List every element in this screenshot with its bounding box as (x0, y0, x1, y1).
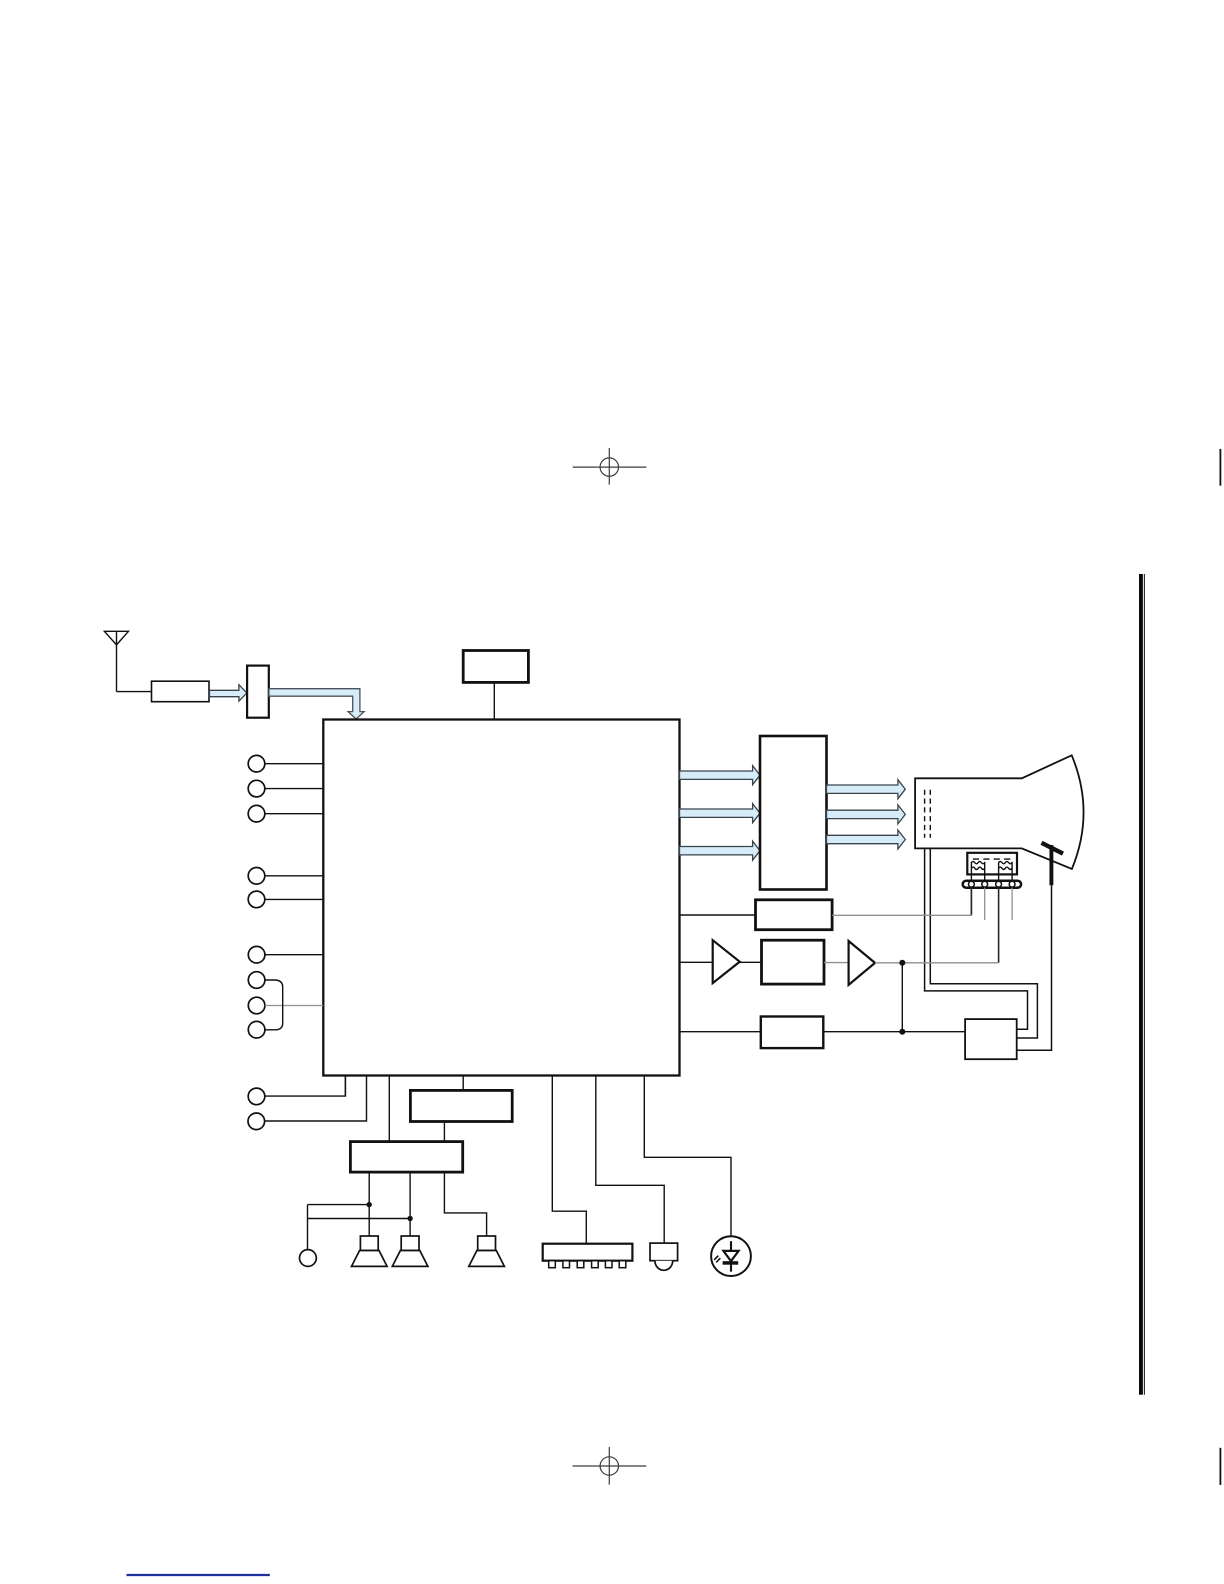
blue signal path filter to IC (bent arrow down) (269, 689, 364, 719)
wire gun lead 2 to FBT (930, 848, 1037, 1038)
wire socket pin2 stub (grey) (984, 888, 986, 920)
wire Q2 to yoke pin3 (grey) (875, 962, 999, 964)
junction node B (899, 1029, 905, 1035)
blue arrow IC to RGB driver (B) (680, 841, 761, 860)
wire socket pin3 down to amp line (998, 888, 1000, 963)
wire P10 to IC bottom (265, 1076, 346, 1097)
CN1 pin 3 (577, 1261, 584, 1268)
yoke dashed link (973, 858, 1012, 860)
wire P6 to IC (265, 954, 323, 956)
flyback transformer T1 (965, 1019, 1017, 1059)
wire IC bottom to box F (388, 1076, 390, 1142)
socket pin 4 (1009, 881, 1015, 887)
blue arrow IC to RGB driver (R) (680, 766, 761, 785)
CN1 pin 4 (592, 1261, 599, 1268)
socket pin 2 (982, 881, 988, 887)
wire socket pin4 stub (grey) (1011, 888, 1013, 920)
terminal P4 (248, 868, 265, 885)
blue arrow driver to CRT (G) (827, 805, 906, 824)
wire anode to FBT (1017, 885, 1052, 1050)
electron gun dashed line 2 (929, 790, 931, 838)
junction on SP1 line (367, 1202, 372, 1207)
registration mark bottom (573, 1447, 647, 1485)
junction on SP2 line (407, 1216, 412, 1221)
wire P8 to IC (grey) (265, 1005, 323, 1007)
box U4 (horizontal drive) (762, 940, 825, 984)
blue arrow driver to CRT (B) (827, 830, 906, 849)
terminal P7 (248, 972, 265, 989)
wire P3 to IC (265, 813, 324, 815)
wire P4 to IC (265, 875, 324, 877)
terminal P11 (248, 1113, 265, 1130)
audio amplifier box F (350, 1142, 462, 1173)
yoke coil L1 (971, 861, 984, 880)
binding bar right (1139, 574, 1144, 1395)
wire IC bottom to connector CN1 (552, 1076, 586, 1244)
navy footer rule (127, 1574, 270, 1576)
wire node A to node B (901, 963, 903, 1032)
wire gun lead 1 to FBT (925, 848, 1028, 1029)
trim line right bottom (1219, 1448, 1221, 1485)
wire box F to speaker SP3 (444, 1172, 486, 1236)
wire IC bottom to audio box E (462, 1076, 464, 1091)
connector CN1 body (543, 1244, 633, 1261)
blue arrow tuner to SAW filter (210, 685, 247, 702)
box U3 (vertical output) (756, 900, 833, 930)
IR remote sensor IR1 (650, 1243, 678, 1270)
speaker SP1 (352, 1236, 388, 1266)
box U5 (H-osc) (761, 1017, 824, 1049)
anode cap (1042, 843, 1064, 886)
wire box F to speaker SP2 (409, 1172, 411, 1236)
wire P5 to IC (265, 898, 324, 900)
wire phones jack to SP1 line (308, 1204, 370, 1206)
terminal P1 (248, 755, 265, 772)
wire P11 to IC bottom (265, 1076, 367, 1122)
speaker SP2 (392, 1236, 428, 1266)
wire Q1 to box U4 (740, 961, 762, 963)
wire IC to box U5 (680, 1031, 761, 1033)
junction node A (899, 960, 905, 966)
CN1 pin 2 (563, 1261, 570, 1268)
terminal P8 (248, 997, 265, 1014)
wire IC bottom to IR sensor (596, 1076, 664, 1244)
terminal P10 (248, 1088, 265, 1105)
speaker SP3 (469, 1236, 505, 1266)
registration mark top (573, 448, 647, 485)
wire box E to box F (443, 1122, 445, 1142)
CN1 pin 6 (619, 1261, 626, 1268)
socket pin 3 (996, 881, 1002, 887)
CN1 pin 1 (549, 1261, 556, 1268)
LED D1 (power indicator) (711, 1236, 751, 1276)
wire crystal to IC (493, 682, 495, 719)
wire IC to box U3 (680, 914, 756, 916)
deflection yoke DY1 (967, 853, 1017, 875)
yoke coil L2 (999, 861, 1013, 880)
terminal P6 (248, 946, 265, 963)
RGB driver U2 (760, 736, 827, 890)
wire IC bottom to LED D1 (644, 1076, 731, 1237)
tuner TU1 (152, 681, 210, 702)
terminal P5 (248, 891, 265, 908)
wire U4 to amp Q2 (grey) (824, 962, 849, 964)
amp Q1 (buffer triangle) (713, 940, 740, 983)
wire phones jack to SP2 line (308, 1218, 411, 1220)
main IC U1 (jungle/microcontroller block) (323, 720, 679, 1076)
SAW filter FL1 (247, 666, 269, 718)
audio processor box E (410, 1090, 512, 1121)
wire U3 to yoke pin1 (grey) (832, 914, 971, 916)
wire antenna to tuner (117, 691, 152, 693)
CRT V1 (picture tube outline) (915, 755, 1083, 869)
blue arrow IC to RGB driver (G) (680, 804, 761, 823)
phones jack J1 (300, 1250, 317, 1267)
wire socket pin1 down (grey) (970, 888, 972, 916)
wire P1 to IC (265, 763, 324, 765)
amp Q2 (output triangle) (849, 941, 875, 985)
electron gun dashed line 1 (924, 790, 926, 838)
trim line right top (1219, 449, 1221, 486)
terminal P2 (248, 780, 265, 797)
wire phones jack drop (307, 1205, 309, 1250)
wire box F to speaker SP1 (368, 1172, 370, 1236)
wire IC to amp Q1 (680, 961, 713, 963)
blue arrow driver to CRT (R) (827, 780, 906, 799)
yoke socket CN2 (stadium connector) (963, 881, 1021, 888)
CN1 pin 5 (605, 1261, 612, 1268)
terminal P3 (248, 805, 265, 822)
wire IC bottom to P10 riser (344, 1076, 346, 1097)
socket pin 1 (969, 881, 975, 887)
crystal X1 (463, 651, 528, 683)
antenna ANT1 (104, 631, 128, 691)
bracket wire joining P7 and P9 (265, 980, 283, 1030)
wire P2 to IC (265, 788, 324, 790)
wire U5 to FBT T1 (823, 1031, 965, 1033)
terminal P9 (248, 1021, 265, 1038)
